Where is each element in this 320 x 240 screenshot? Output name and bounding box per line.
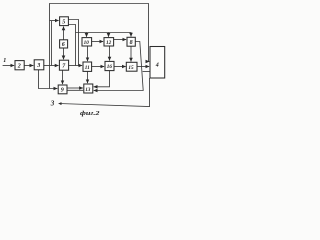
box 8 [127, 37, 135, 46]
svg-text:3: 3 [50, 99, 55, 107]
wire bottom line from box4 [59, 78, 150, 107]
wire box4 left jog to vertical [143, 71, 150, 73]
box 5 [60, 17, 69, 26]
wire bus to box8 [76, 33, 132, 37]
wire arrow 16 to 15 [114, 66, 126, 68]
svg-text:6: 6 [62, 42, 65, 48]
svg-text:5: 5 [62, 20, 65, 26]
wire arrow 11 down to 13 [87, 71, 89, 83]
wire stub into box10 [86, 33, 88, 37]
wire vertical B [51, 21, 53, 66]
svg-text:3: 3 [36, 63, 40, 69]
svg-text:8: 8 [130, 40, 133, 46]
wire arrow 6 down to 7 [63, 48, 65, 59]
box 3 [34, 60, 44, 70]
wire arrow 10 down to 11 [87, 46, 89, 61]
svg-text:11: 11 [85, 65, 90, 71]
wire box5 lower right out [68, 25, 75, 66]
svg-text:4: 4 [155, 63, 159, 69]
svg-text:15: 15 [128, 65, 134, 71]
svg-text:1: 1 [3, 58, 6, 64]
wire into box5 left [50, 20, 59, 22]
wire arrow 10 to 12 [92, 41, 104, 43]
wire arrow 9 to 13 [67, 87, 83, 89]
wire arrow 8 down to 15 [130, 46, 132, 61]
box 16 [105, 61, 114, 70]
box 2 [15, 61, 24, 70]
wire box5 upper right out [68, 20, 78, 66]
svg-text:2: 2 [17, 63, 21, 69]
wire arrow 6 up to 5 [63, 27, 65, 40]
box 9 [58, 85, 67, 94]
wire 9 to 13 lower line [67, 89, 83, 91]
box 6 [60, 40, 68, 48]
wire input arrow 1 [3, 65, 15, 67]
wire box8 right down to 13 [94, 42, 144, 91]
box 12 [104, 38, 114, 46]
box 11 [83, 62, 92, 71]
box 7 [59, 60, 68, 70]
wire top feedback line [50, 4, 149, 62]
wire 16 down left into 13 [94, 71, 110, 87]
svg-text:9: 9 [61, 88, 64, 94]
wire feedback into box4 left [148, 61, 151, 63]
box 4 [150, 47, 165, 79]
wire arrow 12 to 8 [114, 39, 127, 41]
svg-text:12: 12 [106, 40, 112, 46]
svg-text:фиг.2: фиг.2 [80, 110, 101, 117]
svg-text:13: 13 [85, 87, 91, 93]
box 15 [126, 62, 137, 71]
box 10 [82, 38, 92, 46]
svg-text:10: 10 [84, 40, 90, 46]
wire arrow 15 to 4 [137, 66, 149, 68]
wire arrow 11 to 16 [92, 66, 105, 68]
box 13 [84, 84, 93, 93]
wire arrow 7 down to 9 [62, 70, 64, 84]
wire arrow 7 to 11 [69, 65, 83, 67]
wire stub into box12 [108, 33, 110, 37]
wire arrow 2 to 3 [24, 65, 33, 67]
wire vertical A left bus down [49, 21, 51, 89]
wire arrow 3 to 7 [44, 65, 59, 67]
svg-text:16: 16 [107, 64, 113, 70]
wire arrow 12 down to 16 [109, 46, 111, 61]
wire box3 down to box9 [39, 70, 58, 89]
